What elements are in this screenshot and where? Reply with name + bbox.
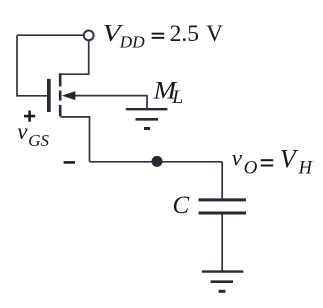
svg-text:V: V	[280, 145, 299, 174]
polarity minus (vGS)	[64, 161, 75, 164]
transistor M_L channel segment (drain)	[59, 73, 62, 86]
wire: VDD top rail	[17, 34, 83, 36]
wire: node to capacitor top plate	[221, 162, 223, 199]
wire: capacitor bottom plate to ground	[221, 214, 223, 270]
svg-text:v: v	[17, 119, 28, 144]
polarity plus (vGS)	[24, 111, 35, 122]
svg-text:v: v	[232, 145, 243, 170]
svg-text:V: V	[206, 21, 223, 46]
wire: source lead down to output node	[60, 117, 89, 162]
svg-text:O: O	[244, 158, 258, 179]
svg-text:2.5: 2.5	[170, 21, 199, 47]
label vO = VH	[232, 145, 314, 179]
transistor M_L body arrow	[62, 91, 76, 100]
wire: output node rail	[90, 161, 223, 163]
label VDD = 2.5 V	[103, 20, 224, 52]
svg-text:DD: DD	[119, 32, 145, 51]
label vGS	[17, 119, 49, 150]
ground (body of M_L)	[126, 109, 168, 128]
transistor M_L channel segment (body)	[59, 91, 62, 101]
capacitor C bottom plate	[199, 212, 247, 215]
wire: gate loop (left vertical + gate lead)	[17, 35, 47, 96]
svg-text:GS: GS	[28, 131, 49, 150]
transistor M_L gate bar	[47, 79, 51, 112]
capacitor C top plate	[199, 198, 247, 201]
label M_L	[153, 78, 184, 108]
svg-text:L: L	[171, 88, 183, 108]
junction dot (output node)	[152, 156, 163, 167]
wire: body lead to ground stub	[75, 96, 148, 109]
svg-text:H: H	[298, 159, 314, 179]
ground (capacitor)	[202, 272, 243, 292]
VDD terminal circle	[84, 31, 94, 41]
svg-text:C: C	[173, 192, 190, 219]
transistor M_L channel segment (source)	[59, 105, 62, 117]
wire: drain lead from VDD terminal	[60, 41, 88, 74]
